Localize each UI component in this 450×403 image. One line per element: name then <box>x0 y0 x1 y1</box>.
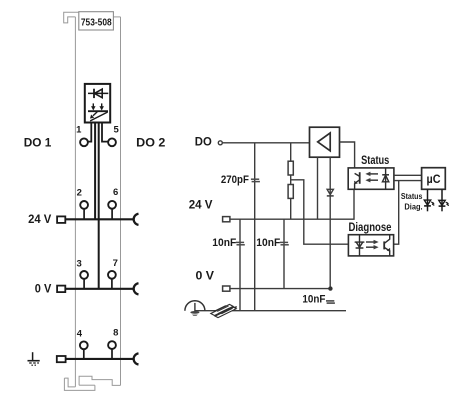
svg-text:DO 1: DO 1 <box>24 135 52 149</box>
svg-text:4: 4 <box>77 329 83 340</box>
24V terminal (schematic) <box>223 217 230 222</box>
24V row wire <box>66 218 135 220</box>
resistor R1 <box>288 161 293 175</box>
suppressor diode D1 (horizontal) <box>88 89 108 98</box>
earth ground symbol <box>28 352 40 365</box>
pin 8 <box>108 341 116 349</box>
LED2 diag <box>439 189 449 211</box>
earth terminal square <box>57 356 66 362</box>
capacitor C1 270pF <box>251 179 260 181</box>
svg-text:10nF: 10nF <box>302 293 325 305</box>
node DO <box>218 141 222 145</box>
wire divider tap to Diagnose <box>291 180 349 244</box>
capacitor C4 10nF <box>326 301 335 303</box>
wire 270pF branch <box>254 143 256 311</box>
pin 6 <box>108 201 116 209</box>
bus wire to 24V row <box>94 123 96 219</box>
wire 10nF branch 2 <box>283 219 285 288</box>
svg-text:DO: DO <box>195 135 212 149</box>
module strip right edge <box>120 17 122 386</box>
junction node <box>328 286 332 290</box>
svg-text:24 V: 24 V <box>28 212 51 226</box>
svg-text:5: 5 <box>114 125 120 136</box>
pin 3 <box>80 271 88 279</box>
pin 8 stub <box>111 349 113 359</box>
DIN rail symbol <box>211 304 237 317</box>
svg-text:µC: µC <box>427 174 441 186</box>
0V rail wire <box>230 288 330 290</box>
svg-text:6: 6 <box>113 187 118 198</box>
svg-text:10nF: 10nF <box>256 237 280 249</box>
U5 LED <box>355 235 365 256</box>
0V terminal square <box>57 286 65 293</box>
24V clamp <box>134 214 139 225</box>
suppressor box U1 <box>85 84 110 123</box>
24V rail wire <box>230 189 354 219</box>
capacitor C2 10nF <box>236 242 245 244</box>
svg-text:0 V: 0 V <box>35 282 52 296</box>
svg-text:Diag.: Diag. <box>404 202 422 212</box>
pin 2 stub <box>83 209 85 220</box>
svg-text:Diagnose: Diagnose <box>349 222 392 234</box>
wire amp through diode to 0V <box>329 157 331 288</box>
pin 7 <box>108 271 116 279</box>
box leg to pin 5 <box>102 123 108 142</box>
bus wire to 0V row <box>98 123 100 289</box>
capacitor C3 10nF <box>280 242 289 244</box>
svg-text:10nF: 10nF <box>212 237 236 249</box>
wire DO to amplifier <box>222 142 309 144</box>
U3 diode <box>382 168 389 189</box>
svg-text:0 V: 0 V <box>196 269 215 283</box>
wire amp to 24V rail <box>317 157 319 219</box>
op-amp U2 (output driver) <box>310 127 340 157</box>
svg-text:2: 2 <box>77 188 82 199</box>
pin 6 stub <box>111 209 113 220</box>
U5 light arrows <box>366 240 378 249</box>
svg-text:Status: Status <box>361 155 389 167</box>
pin 2 <box>80 201 88 209</box>
U3 light arrows <box>366 172 378 182</box>
24V terminal square <box>57 216 65 223</box>
pin 4 <box>80 341 88 349</box>
wire resistor branch <box>290 143 292 219</box>
svg-text:7: 7 <box>113 258 118 269</box>
0V terminal (schematic) <box>223 286 230 291</box>
microcontroller U4 <box>422 168 446 190</box>
diode D3 <box>327 189 334 196</box>
pin 7 stub <box>111 279 113 289</box>
label box 753-508 <box>79 12 114 30</box>
svg-text:24 V: 24 V <box>189 198 213 212</box>
optocoupler U5 Diagnose <box>348 235 393 256</box>
label box connector <box>113 16 120 18</box>
U3 phototransistor <box>354 172 359 189</box>
svg-text:8: 8 <box>113 328 118 339</box>
svg-text:DO 2: DO 2 <box>136 135 166 149</box>
PE dome symbol <box>185 301 205 316</box>
box leg to pin 1 <box>88 123 92 142</box>
svg-text:753-508: 753-508 <box>81 16 112 28</box>
LED1 status <box>424 189 434 211</box>
module strip left edge <box>74 17 76 387</box>
wire amp output to Status opto <box>340 142 355 173</box>
0V clamp <box>134 283 139 294</box>
svg-text:Status: Status <box>401 191 423 201</box>
pin 5 <box>108 138 116 146</box>
module top latch hook <box>64 12 79 23</box>
optocoupler U3 Status <box>348 168 394 189</box>
wire to Diagnose opto output <box>394 181 399 245</box>
svg-text:270pF: 270pF <box>221 174 249 186</box>
earth clamp <box>134 353 139 364</box>
wires Status opto to microcontroller <box>394 175 422 180</box>
U5 phototransistor <box>384 235 390 256</box>
pin 3 stub <box>83 279 85 289</box>
resistor R2 <box>288 185 293 199</box>
svg-text:1: 1 <box>76 125 82 136</box>
pin 1 <box>80 138 88 146</box>
module bottom foot outline <box>64 376 120 390</box>
suppressor element D2 (bar with arrows) <box>88 103 108 121</box>
earth row wire <box>66 358 134 360</box>
wire 10nF branch 1 <box>239 219 241 311</box>
svg-text:3: 3 <box>77 259 82 270</box>
ground bus wire <box>195 310 347 312</box>
pin 4 stub <box>83 349 85 359</box>
0V row wire <box>66 288 135 290</box>
